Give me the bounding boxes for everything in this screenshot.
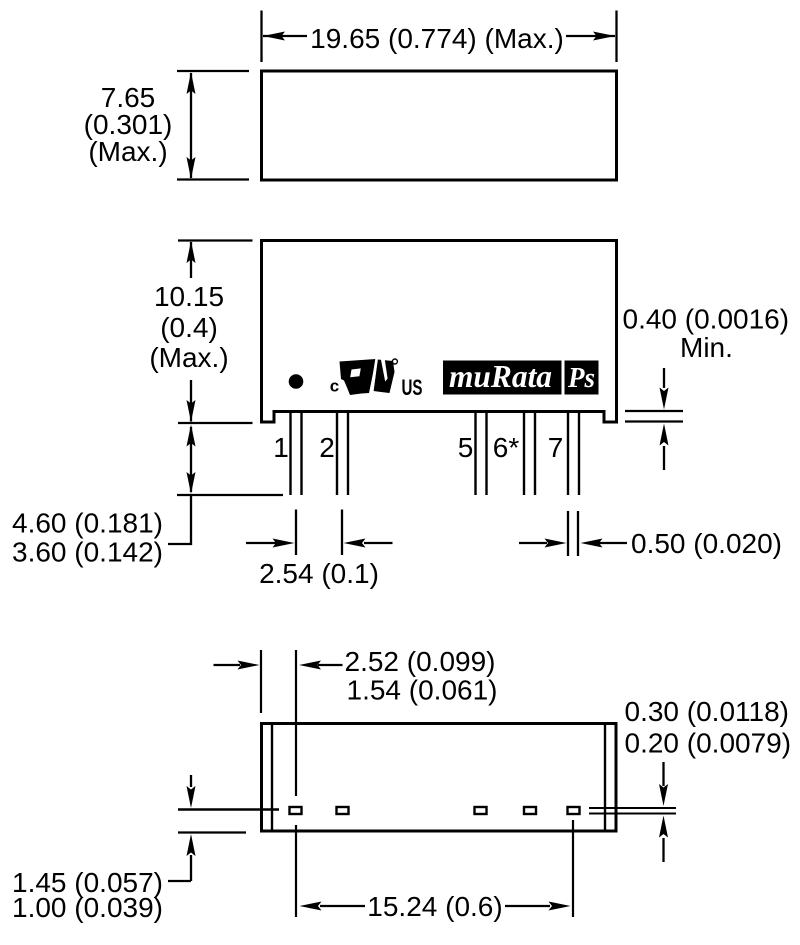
extension line left (19.65 dim) (260, 11, 262, 63)
svg-text:(Max.): (Max.) (149, 342, 228, 373)
bottom view body outline (262, 724, 617, 832)
svg-text:US: US (402, 375, 423, 400)
front view body outline with standoff steps (262, 241, 617, 423)
extension line top (10.15 dim) (178, 239, 253, 241)
extension line bottom edge left (178, 831, 246, 833)
pad line left extension (178, 808, 279, 810)
svg-text:1: 1 (273, 432, 289, 463)
dimension line 4.60/3.60 (190, 427, 192, 492)
leader 1.45/1.00 (168, 880, 191, 882)
pad 1 (290, 807, 302, 814)
dimension 2.52/1.54 (214, 664, 241, 666)
dimension line 19.65 left segment (263, 35, 307, 37)
svg-text:0.30 (0.0118): 0.30 (0.0118) (625, 696, 790, 727)
UL mark white separations (369, 357, 378, 396)
svg-text:4.60 (0.181): 4.60 (0.181) (12, 508, 163, 539)
pin 6 lead (523, 412, 525, 495)
svg-text:19.65 (0.774) (Max.): 19.65 (0.774) (Max.) (310, 23, 564, 54)
dimension line 10.15 bottom segment (190, 380, 192, 422)
leader for 4.60/3.60 (168, 496, 191, 545)
svg-text:0.40 (0.0016): 0.40 (0.0016) (623, 304, 790, 335)
extension lines 0.50 dim (567, 511, 569, 556)
pad 7 (568, 807, 580, 814)
pad thickness lines right (589, 807, 676, 809)
svg-text:5: 5 (458, 432, 474, 463)
svg-text:15.24 (0.6): 15.24 (0.6) (367, 891, 502, 922)
UL recognized mark: reversed R piece (340, 359, 377, 395)
extension line bottom (7.65 dim) (177, 178, 249, 180)
pin 7 lead (567, 412, 569, 495)
pad 5 (475, 807, 487, 814)
svg-text:7: 7 (548, 432, 564, 463)
svg-text:0.50 (0.020): 0.50 (0.020) (631, 528, 782, 559)
pin 1 lead (289, 412, 291, 495)
svg-text:2.52 (0.099): 2.52 (0.099) (345, 646, 496, 677)
extension line body left edge (2.52 dim) (260, 650, 262, 713)
svg-text:2.54 (0.1): 2.54 (0.1) (259, 558, 379, 589)
bottom view inner edge left (271, 724, 273, 832)
dimension 15.24 (320, 905, 365, 907)
svg-text:1.54 (0.061): 1.54 (0.061) (347, 675, 498, 706)
pad 2 (337, 807, 349, 814)
svg-text:(Max.): (Max.) (88, 136, 167, 167)
pin 1 indicator dot (289, 374, 304, 389)
svg-text:1.00 (0.039): 1.00 (0.039) (12, 892, 163, 923)
dimension 0.50 (519, 542, 547, 544)
top view body outline (262, 71, 617, 180)
dimension line 7.65 vertical (190, 73, 192, 178)
pin 2 lead (336, 412, 338, 495)
dimension arrows 0.30/0.20 (662, 762, 664, 786)
dimension 2.54 (246, 542, 276, 544)
extension line right (19.65 dim) (615, 11, 617, 63)
svg-text:muRata: muRata (449, 358, 552, 394)
svg-text:10.15: 10.15 (154, 281, 224, 312)
svg-text:0.20 (0.0079): 0.20 (0.0079) (625, 728, 792, 759)
svg-text:Ps: Ps (567, 363, 595, 394)
svg-text:(0.4): (0.4) (160, 312, 218, 343)
murata logo box (443, 361, 562, 395)
UL recognized mark: U piece (374, 360, 395, 394)
extension lines 0.40 dim (625, 410, 683, 412)
extension line lead ends (177, 494, 283, 496)
pad 6 (524, 807, 536, 814)
pin 1 centerline lower (295, 825, 297, 917)
svg-text:c: c (330, 377, 339, 396)
extension line top (7.65 dim) (177, 70, 249, 72)
pin 1 centerline upper (295, 650, 297, 796)
dimension arrows 1.45/1.00 (190, 775, 192, 787)
dimension arrows 0.40 (663, 368, 665, 388)
dimension line 19.65 right segment (566, 35, 615, 37)
svg-text:3.60 (0.142): 3.60 (0.142) (12, 537, 163, 568)
extension line bottom (10.15 dim) (178, 422, 253, 424)
dimension line 10.15 top segment (190, 242, 192, 278)
bottom view inner edge right (604, 724, 606, 832)
extension lines 2.54 dim (295, 510, 297, 556)
svg-text:6*: 6* (493, 432, 520, 463)
pin 5 lead (474, 412, 476, 495)
svg-text:Min.: Min. (680, 332, 733, 363)
murata Ps logo box (565, 361, 599, 395)
UL mark registered circle (392, 359, 397, 364)
svg-text:2: 2 (319, 432, 335, 463)
pin 7 centerline (572, 820, 574, 917)
